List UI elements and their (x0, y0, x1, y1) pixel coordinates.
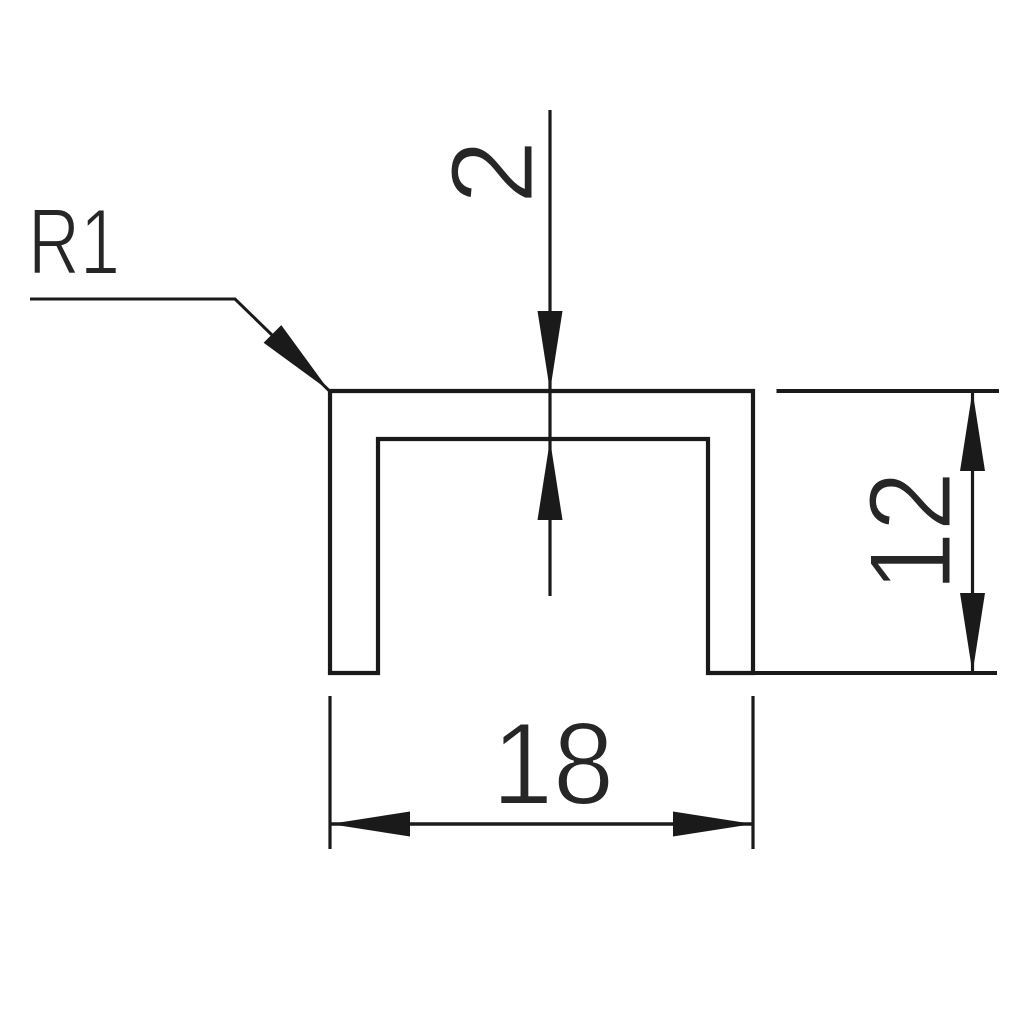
dimension 12 bottom extension line (708, 671, 997, 675)
radius leader line R1 (30, 299, 329, 391)
dimension 12 bottom arrowhead (960, 593, 985, 673)
svg-text:18: 18 (492, 698, 614, 829)
dimension 2 down arrowhead (538, 311, 563, 391)
dimension 18 left extension line (328, 696, 331, 849)
dimension 18 right arrowhead (673, 812, 753, 837)
dimension 2 line (548, 110, 551, 596)
dimension 12 line (971, 391, 974, 673)
dimension 2 up arrowhead (538, 440, 563, 520)
dimension 18 left arrowhead (330, 812, 410, 837)
dimension 12 top extension line (777, 389, 1000, 393)
radius leader arrowhead (264, 325, 329, 390)
dimension 18 line (330, 822, 753, 825)
dimension 18 right extension line (751, 696, 754, 849)
U-channel profile outline (330, 391, 753, 673)
svg-text:R1: R1 (28, 189, 120, 294)
svg-text:12: 12 (845, 471, 976, 592)
svg-text:2: 2 (427, 139, 558, 204)
dimension 12 top arrowhead (960, 391, 985, 471)
